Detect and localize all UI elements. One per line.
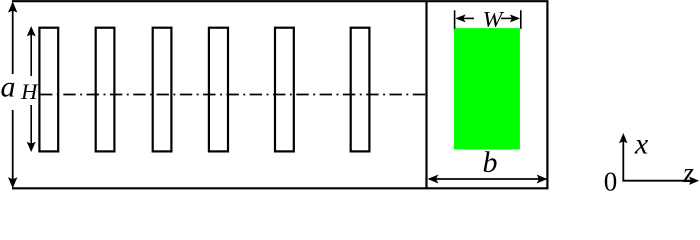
dimension W (ticks + outward arrows) (455, 10, 521, 29)
svg-text:a: a (1, 71, 16, 104)
svg-text:b: b (483, 146, 498, 179)
label W (483, 7, 505, 31)
svg-text:x: x (634, 128, 649, 161)
waveguide outer wall (top, right, bottom) (12, 1, 547, 188)
slot 3 (153, 28, 172, 152)
divider wall (425, 1, 427, 188)
x axis (619, 133, 627, 182)
svg-text:H: H (20, 79, 39, 104)
slot 6 (351, 28, 370, 152)
green dielectric block (454, 28, 520, 149)
slot 1 (39, 28, 58, 152)
svg-text:z: z (682, 158, 694, 189)
dimension arrow a (left edge, double-headed) (8, 2, 17, 189)
slot 5 (275, 28, 294, 152)
z axis (622, 177, 699, 185)
dimension arrow H (slot height, double-headed) (27, 26, 36, 152)
svg-text:0: 0 (604, 167, 618, 195)
dimension arrow b (double-headed) (428, 175, 548, 184)
slot 2 (96, 28, 115, 152)
centerline (dash-dot axis) (40, 94, 427, 96)
slot 4 (209, 28, 228, 152)
svg-text:W: W (483, 7, 505, 31)
